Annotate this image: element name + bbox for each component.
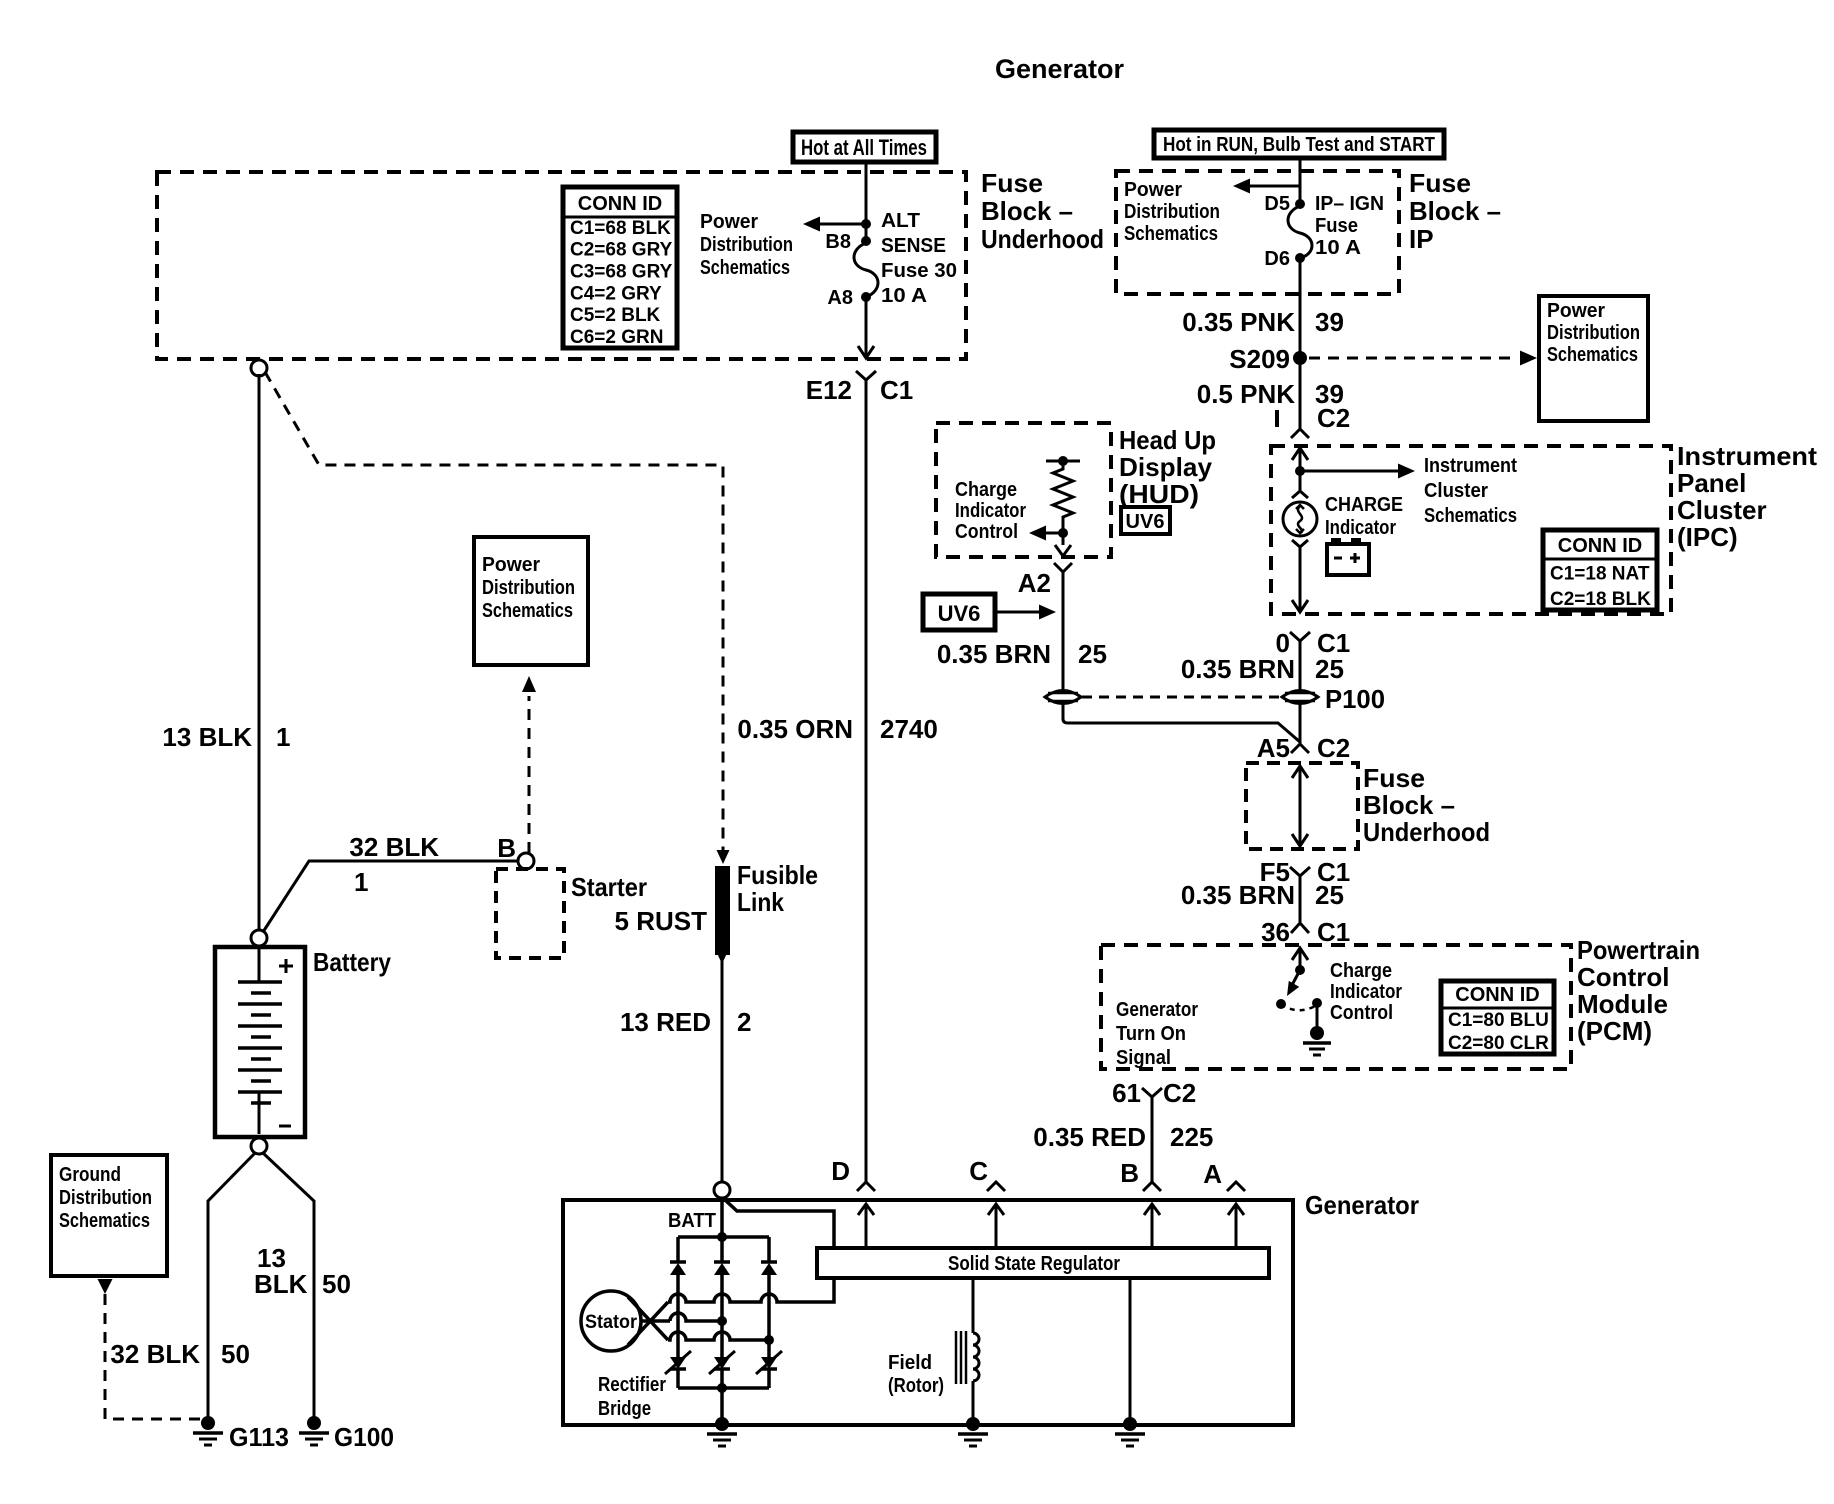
connector table CONN ID PCM — [1441, 981, 1554, 1054]
svg-text:Distribution: Distribution — [1547, 322, 1640, 344]
svg-text:0.35 BRN: 0.35 BRN — [1181, 880, 1295, 910]
svg-text:A: A — [1203, 1159, 1222, 1189]
connector I C2 into IPC — [1277, 403, 1350, 438]
svg-text:0.5 PNK: 0.5 PNK — [1197, 379, 1295, 409]
powertrain control module dashed box — [1101, 945, 1571, 1069]
terminal C — [969, 1156, 1005, 1191]
svg-text:C6=2 GRN: C6=2 GRN — [570, 327, 663, 348]
svg-text:Fuse 30: Fuse 30 — [881, 260, 957, 282]
svg-text:Distribution: Distribution — [482, 577, 575, 599]
connector table CONN ID underhood — [563, 187, 677, 348]
svg-text:IP– IGN: IP– IGN — [1315, 193, 1384, 215]
diode D3 (positive) — [761, 1237, 777, 1357]
wire to G100 — [263, 1153, 314, 1420]
arrow to power distribution (underhood) — [803, 217, 871, 232]
svg-text:Link: Link — [737, 887, 784, 917]
svg-text:A8: A8 — [827, 287, 853, 309]
label 0.35 BRN 25 (IPC side) — [1181, 654, 1344, 684]
starter dashed box — [496, 869, 564, 958]
svg-text:Distribution: Distribution — [1124, 201, 1220, 223]
note Power Distribution Schematics (IP) — [1124, 179, 1220, 245]
svg-text:50: 50 — [221, 1339, 250, 1369]
connector A2 — [1018, 563, 1072, 598]
svg-text:C1: C1 — [880, 375, 913, 405]
arrow left inside HUD — [1029, 526, 1063, 541]
svg-text:0.35 ORN: 0.35 ORN — [737, 714, 853, 744]
wire to G113 — [208, 1153, 255, 1420]
note Charge Indicator Control (HUD) — [955, 479, 1026, 543]
svg-text:C1=68 BLK: C1=68 BLK — [570, 218, 671, 239]
terminal A — [1203, 1159, 1245, 1191]
wire lamp to IPC bottom with down arrow — [1292, 547, 1308, 612]
svg-text:(HUD): (HUD) — [1119, 479, 1199, 509]
svg-text:C1=18 NAT: C1=18 NAT — [1550, 564, 1650, 585]
svg-text:B: B — [1120, 1158, 1139, 1188]
svg-text:Turn On: Turn On — [1116, 1023, 1186, 1045]
svg-text:Charge: Charge — [1330, 960, 1392, 982]
diode D6 (negative, avalanche) — [756, 1351, 782, 1388]
wire ALT SENSE feed from Hot at All Times — [865, 162, 868, 241]
svg-text:Powertrain: Powertrain — [1577, 935, 1700, 965]
svg-text:Rectifier: Rectifier — [598, 1374, 666, 1396]
diode D4 (negative, avalanche) — [665, 1351, 691, 1388]
wire from Hot in RUN label — [1299, 158, 1302, 204]
svg-text:1: 1 — [276, 722, 290, 752]
svg-text:BATT: BATT — [668, 1210, 716, 1232]
stator phase leads — [628, 1297, 670, 1345]
generator box — [563, 1200, 1293, 1425]
svg-text:Cluster: Cluster — [1424, 480, 1488, 502]
wire 13 BLK 1 — [258, 374, 261, 930]
svg-text:G113: G113 — [229, 1422, 289, 1452]
svg-text:Power: Power — [1124, 179, 1182, 201]
label Fuse Block - Underhood (small) — [1363, 763, 1490, 847]
label 0.35 RED 225 — [1033, 1122, 1213, 1152]
connector F5 C1 — [1260, 857, 1351, 887]
svg-text:A5: A5 — [1257, 733, 1290, 763]
wire P100 to A5 — [1299, 704, 1302, 744]
note box Power Distribution Schematics (right) — [1539, 296, 1648, 421]
svg-text:C2: C2 — [1163, 1078, 1196, 1108]
label Powertrain Control Module (PCM) — [1577, 935, 1700, 1046]
power label Hot in RUN Bulb Test and START — [1154, 130, 1444, 158]
svg-text:C4=2 GRY: C4=2 GRY — [570, 283, 662, 304]
svg-text:Underhood: Underhood — [981, 224, 1104, 254]
fuse block underhood dashed box — [157, 172, 966, 359]
svg-text:Generator: Generator — [1305, 1190, 1419, 1220]
phase wire 2 — [670, 1313, 727, 1326]
note Instrument Cluster Schematics — [1424, 455, 1517, 527]
svg-text:(IPC): (IPC) — [1677, 522, 1738, 552]
label Fusible Link — [737, 860, 818, 917]
svg-text:5 RUST: 5 RUST — [615, 906, 708, 936]
label 5 RUST — [615, 906, 708, 936]
label 0.35 ORN 2740 — [737, 714, 937, 744]
svg-text:39: 39 — [1315, 307, 1344, 337]
svg-text:BLK: BLK — [254, 1269, 308, 1299]
svg-text:S209: S209 — [1229, 344, 1290, 374]
wire 13 RED 2 — [721, 960, 724, 1182]
svg-text:CHARGE: CHARGE — [1325, 494, 1403, 516]
label 13 RED 2 — [620, 1007, 752, 1037]
svg-text:C3=68 GRY: C3=68 GRY — [570, 262, 673, 283]
svg-text:UV6: UV6 — [1126, 511, 1165, 533]
svg-text:10 A: 10 A — [1315, 237, 1361, 259]
svg-text:Block –: Block – — [1409, 196, 1501, 226]
power label Hot at All Times — [793, 132, 936, 162]
label Rectifier Bridge — [598, 1374, 666, 1420]
svg-text:Signal: Signal — [1116, 1047, 1171, 1069]
svg-text:0.35 BRN: 0.35 BRN — [937, 639, 1051, 669]
connector 36 C1 — [1261, 917, 1350, 947]
fuse block IP dashed box — [1116, 171, 1399, 294]
svg-text:E12: E12 — [806, 375, 852, 405]
arrow regulator to D — [858, 1204, 874, 1248]
svg-text:Fuse: Fuse — [1363, 763, 1425, 793]
svg-text:CONN ID: CONN ID — [1455, 984, 1539, 1006]
svg-text:25: 25 — [1078, 639, 1107, 669]
label 32 BLK 1 — [349, 832, 439, 897]
arrow to instrument cluster schematics — [1300, 464, 1415, 479]
svg-text:IP: IP — [1409, 224, 1434, 254]
terminal B starter — [497, 833, 534, 869]
wire HUD grommet to A5 junction — [1063, 704, 1300, 742]
ground (regulator) — [1115, 1417, 1145, 1446]
svg-text:Generator: Generator — [995, 54, 1125, 84]
node on underhood box edge — [251, 360, 267, 376]
grommet P100 — [1282, 684, 1385, 714]
connector 61 C2 — [1112, 1078, 1196, 1108]
wire regulator to ground — [1129, 1278, 1132, 1423]
wire BATT elbow to regulator top — [724, 1199, 834, 1248]
svg-text:1: 1 — [354, 867, 368, 897]
ground (field) — [958, 1417, 988, 1446]
terminal BATT — [668, 1182, 730, 1232]
svg-text:Control: Control — [1330, 1002, 1393, 1024]
battery telltale icon — [1327, 538, 1369, 575]
svg-text:Power: Power — [700, 211, 758, 233]
battery — [215, 930, 305, 1137]
label Instrument Panel Cluster (IPC) — [1677, 441, 1817, 552]
svg-text:C2=18 BLK: C2=18 BLK — [1550, 589, 1651, 610]
svg-text:UV6: UV6 — [938, 601, 981, 626]
rectifier bridge bottom bus — [678, 1383, 769, 1393]
svg-text:Schematics: Schematics — [1547, 344, 1638, 366]
svg-text:25: 25 — [1315, 880, 1344, 910]
svg-text:(Rotor): (Rotor) — [888, 1375, 944, 1397]
transistor switch charge indicator driver — [1276, 965, 1322, 1010]
wire 0.35 BRN 25 (HUD) — [1062, 572, 1065, 690]
svg-text:Stator: Stator — [585, 1312, 638, 1333]
splice S209 — [1229, 344, 1307, 374]
svg-text:13 RED: 13 RED — [620, 1007, 711, 1037]
note box Ground Distribution Schematics — [51, 1155, 167, 1276]
svg-text:32 BLK: 32 BLK — [349, 832, 439, 862]
phase wire 3 — [668, 1332, 774, 1345]
svg-text:Schematics: Schematics — [482, 600, 573, 622]
label Generator — [1305, 1190, 1419, 1220]
wire 0.35 ORN 2740 to generator D terminal — [865, 380, 868, 1182]
svg-text:C1=80 BLU: C1=80 BLU — [1448, 1010, 1549, 1031]
svg-text:Fusible: Fusible — [737, 860, 818, 890]
svg-text:50: 50 — [322, 1269, 351, 1299]
lamp CHARGE indicator — [1283, 491, 1317, 547]
svg-text:CONN ID: CONN ID — [578, 193, 662, 215]
svg-text:Schematics: Schematics — [700, 257, 790, 279]
label Field (Rotor) — [888, 1352, 944, 1397]
svg-text:225: 225 — [1170, 1122, 1213, 1152]
svg-text:Ground: Ground — [59, 1164, 121, 1186]
svg-text:C5=2 BLK: C5=2 BLK — [570, 305, 661, 326]
svg-text:(PCM): (PCM) — [1577, 1016, 1652, 1046]
svg-text:Fuse: Fuse — [1315, 215, 1358, 237]
svg-text:CONN ID: CONN ID — [1558, 535, 1642, 557]
wire 0.35 RED 225 — [1151, 1097, 1154, 1182]
label 0.35 PNK 39 — [1182, 307, 1344, 337]
svg-text:Battery: Battery — [313, 947, 391, 977]
svg-text:D6: D6 — [1264, 248, 1290, 270]
svg-text:Bridge: Bridge — [598, 1398, 651, 1420]
svg-text:Indicator: Indicator — [955, 500, 1026, 522]
svg-text:Solid State Regulator: Solid State Regulator — [948, 1253, 1120, 1275]
svg-text:C2: C2 — [1317, 733, 1350, 763]
svg-text:2740: 2740 — [880, 714, 938, 744]
title Generator — [995, 54, 1125, 84]
label Head Up Display (HUD) — [1119, 425, 1216, 509]
dashed arrow starter to power distribution — [522, 676, 536, 853]
wire into PCM with up arrow — [1292, 948, 1308, 970]
svg-text:Display: Display — [1119, 452, 1213, 482]
grommet (HUD side) — [1045, 691, 1081, 704]
diode D5 (negative, avalanche) — [709, 1351, 735, 1388]
svg-text:D: D — [831, 1156, 850, 1186]
svg-text:0.35 RED: 0.35 RED — [1033, 1122, 1146, 1152]
label Fuse Block - Underhood — [981, 168, 1104, 254]
svg-text:Indicator: Indicator — [1325, 517, 1396, 539]
wire BATT to rectifier bridge — [720, 1198, 724, 1237]
solid state regulator box — [817, 1248, 1269, 1278]
svg-text:C: C — [969, 1156, 988, 1186]
svg-text:Instrument: Instrument — [1677, 441, 1817, 471]
svg-text:C2=68 GRY: C2=68 GRY — [570, 240, 673, 261]
head up display dashed box — [936, 423, 1111, 557]
label 0.35 BRN 25 (PCM side) — [1181, 880, 1344, 910]
wire resistor to HUD box edge with down arrow — [1055, 533, 1071, 556]
fusible link — [715, 866, 730, 964]
svg-text:B: B — [497, 833, 516, 863]
ground (PCM internal) — [1303, 1026, 1331, 1055]
svg-text:ALT: ALT — [881, 210, 920, 232]
arrow regulator to A — [1228, 1204, 1244, 1248]
label Fuse Block - IP — [1409, 168, 1501, 254]
dashed wire to fusible link — [265, 372, 730, 864]
svg-text:Block –: Block – — [1363, 790, 1455, 820]
svg-text:Schematics: Schematics — [59, 1210, 150, 1232]
diode D1 (positive) — [670, 1237, 686, 1357]
ground G (bridge) — [707, 1417, 737, 1446]
svg-text:Schematics: Schematics — [1424, 505, 1517, 527]
terminal D — [831, 1156, 875, 1191]
wire through fuse block with arrows — [1292, 766, 1308, 846]
svg-text:Distribution: Distribution — [700, 234, 793, 256]
svg-text:Schematics: Schematics — [1124, 223, 1218, 245]
svg-text:D5: D5 — [1264, 193, 1290, 215]
wire 0.35 PNK — [1299, 258, 1302, 429]
svg-text:13 BLK: 13 BLK — [162, 722, 252, 752]
fuse ALT SENSE Fuse 30 10A — [825, 210, 957, 309]
svg-text:Power: Power — [1547, 300, 1605, 322]
resistor charge indicator control (HUD) — [1046, 456, 1080, 538]
svg-text:Power: Power — [482, 554, 540, 576]
note Generator Turn On Signal — [1116, 999, 1198, 1069]
fuse block underhood pass-through dashed box — [1246, 763, 1358, 849]
arrow UV6 to wire — [995, 605, 1056, 620]
label 13 BLK 1 — [162, 722, 290, 752]
wire regulator to field — [972, 1278, 975, 1423]
svg-text:Cluster: Cluster — [1677, 495, 1767, 525]
note Charge Indicator Control (PCM) — [1330, 960, 1402, 1024]
svg-text:A2: A2 — [1018, 568, 1051, 598]
wire into IPC with up arrow — [1292, 448, 1308, 471]
svg-text:Hot in RUN, Bulb Test and STAR: Hot in RUN, Bulb Test and START — [1163, 134, 1435, 156]
svg-text:36: 36 — [1261, 917, 1290, 947]
svg-text:Block –: Block – — [981, 196, 1073, 226]
phase wire 1 to regulator — [668, 1278, 834, 1302]
dashed line between grommets — [1082, 696, 1280, 699]
note box Power Distribution Schematics (left) — [474, 537, 588, 665]
svg-text:2: 2 — [737, 1007, 751, 1037]
svg-text:Underhood: Underhood — [1363, 817, 1490, 847]
svg-text:Control: Control — [955, 521, 1018, 543]
option label UV6 (callout) — [923, 594, 995, 630]
arrow regulator to C — [988, 1204, 1004, 1248]
svg-text:Distribution: Distribution — [59, 1187, 152, 1209]
svg-text:C1: C1 — [1317, 917, 1350, 947]
fuse IP-IGN Fuse 10A — [1264, 193, 1384, 270]
connector A5 C2 — [1257, 733, 1351, 763]
rectifier bridge top bus — [678, 1232, 769, 1242]
label Battery — [313, 947, 391, 977]
svg-text:Starter: Starter — [571, 872, 647, 902]
svg-text:Head Up: Head Up — [1119, 425, 1216, 455]
svg-text:0.35 PNK: 0.35 PNK — [1182, 307, 1295, 337]
svg-text:10 A: 10 A — [881, 285, 927, 307]
svg-text:Fuse: Fuse — [1409, 168, 1471, 198]
svg-text:C2: C2 — [1317, 403, 1350, 433]
svg-text:Indicator: Indicator — [1330, 981, 1402, 1003]
ground G100 — [299, 1416, 394, 1452]
svg-text:0.35 BRN: 0.35 BRN — [1181, 654, 1295, 684]
wire 0.35 BRN to P100 — [1299, 641, 1302, 690]
wire junction to lamp — [1299, 471, 1302, 491]
wire 0.35 BRN 25 to PCM — [1299, 876, 1302, 922]
battery negative node — [251, 1138, 267, 1154]
svg-text:Module: Module — [1577, 989, 1668, 1019]
svg-text:32 BLK: 32 BLK — [110, 1339, 200, 1369]
svg-text:P100: P100 — [1325, 684, 1385, 714]
stator winding — [581, 1291, 641, 1351]
node IPC junction — [1295, 466, 1305, 476]
battery plates — [238, 982, 291, 1134]
wire from fuse to box edge with down arrow — [858, 297, 874, 358]
svg-text:25: 25 — [1315, 654, 1344, 684]
field rotor coil — [956, 1331, 979, 1384]
note Power Distribution Schematics (underhood) — [700, 211, 793, 279]
connector 0 C1 — [1276, 628, 1351, 658]
label 0.5 PNK 39 — [1197, 379, 1344, 409]
instrument panel cluster dashed box — [1271, 446, 1671, 614]
svg-text:61: 61 — [1112, 1078, 1141, 1108]
svg-text:Fuse: Fuse — [981, 168, 1043, 198]
svg-text:B8: B8 — [825, 231, 851, 253]
option label UV6 (HUD) — [1121, 507, 1170, 534]
svg-text:Control: Control — [1577, 962, 1669, 992]
arrow to power distribution (IP) — [1233, 179, 1300, 194]
terminal B — [1120, 1158, 1161, 1191]
label Starter — [571, 872, 647, 902]
svg-text:Instrument: Instrument — [1424, 455, 1517, 477]
svg-text:C2=80 CLR: C2=80 CLR — [1448, 1033, 1549, 1054]
connector table CONN ID IPC — [1543, 530, 1657, 610]
svg-text:SENSE: SENSE — [881, 235, 946, 257]
svg-text:Charge: Charge — [955, 479, 1017, 501]
label 32 BLK 50 — [110, 1339, 250, 1369]
arrow regulator to B — [1144, 1204, 1160, 1248]
svg-text:Generator: Generator — [1116, 999, 1198, 1021]
ground G113 — [193, 1416, 289, 1452]
label CHARGE Indicator — [1325, 494, 1403, 539]
dashed wire 32 BLK 50 to G113 — [98, 1279, 204, 1419]
svg-text:Field: Field — [888, 1352, 932, 1374]
svg-text:G100: G100 — [334, 1422, 394, 1452]
dashed arrow from S209 to power distribution — [1309, 351, 1537, 366]
connector E12 C1 — [806, 371, 914, 405]
wire bridge to ground — [720, 1388, 724, 1423]
svg-text:Panel: Panel — [1677, 468, 1746, 498]
wire to internal ground — [1316, 1003, 1319, 1027]
wire 32 BLK 1 to starter — [263, 861, 518, 932]
label 13 BLK 50 — [254, 1243, 351, 1299]
label 0.35 BRN 25 (HUD) — [937, 639, 1107, 669]
diode D2 (positive) — [714, 1237, 730, 1357]
svg-text:Hot at All Times: Hot at All Times — [801, 135, 927, 160]
